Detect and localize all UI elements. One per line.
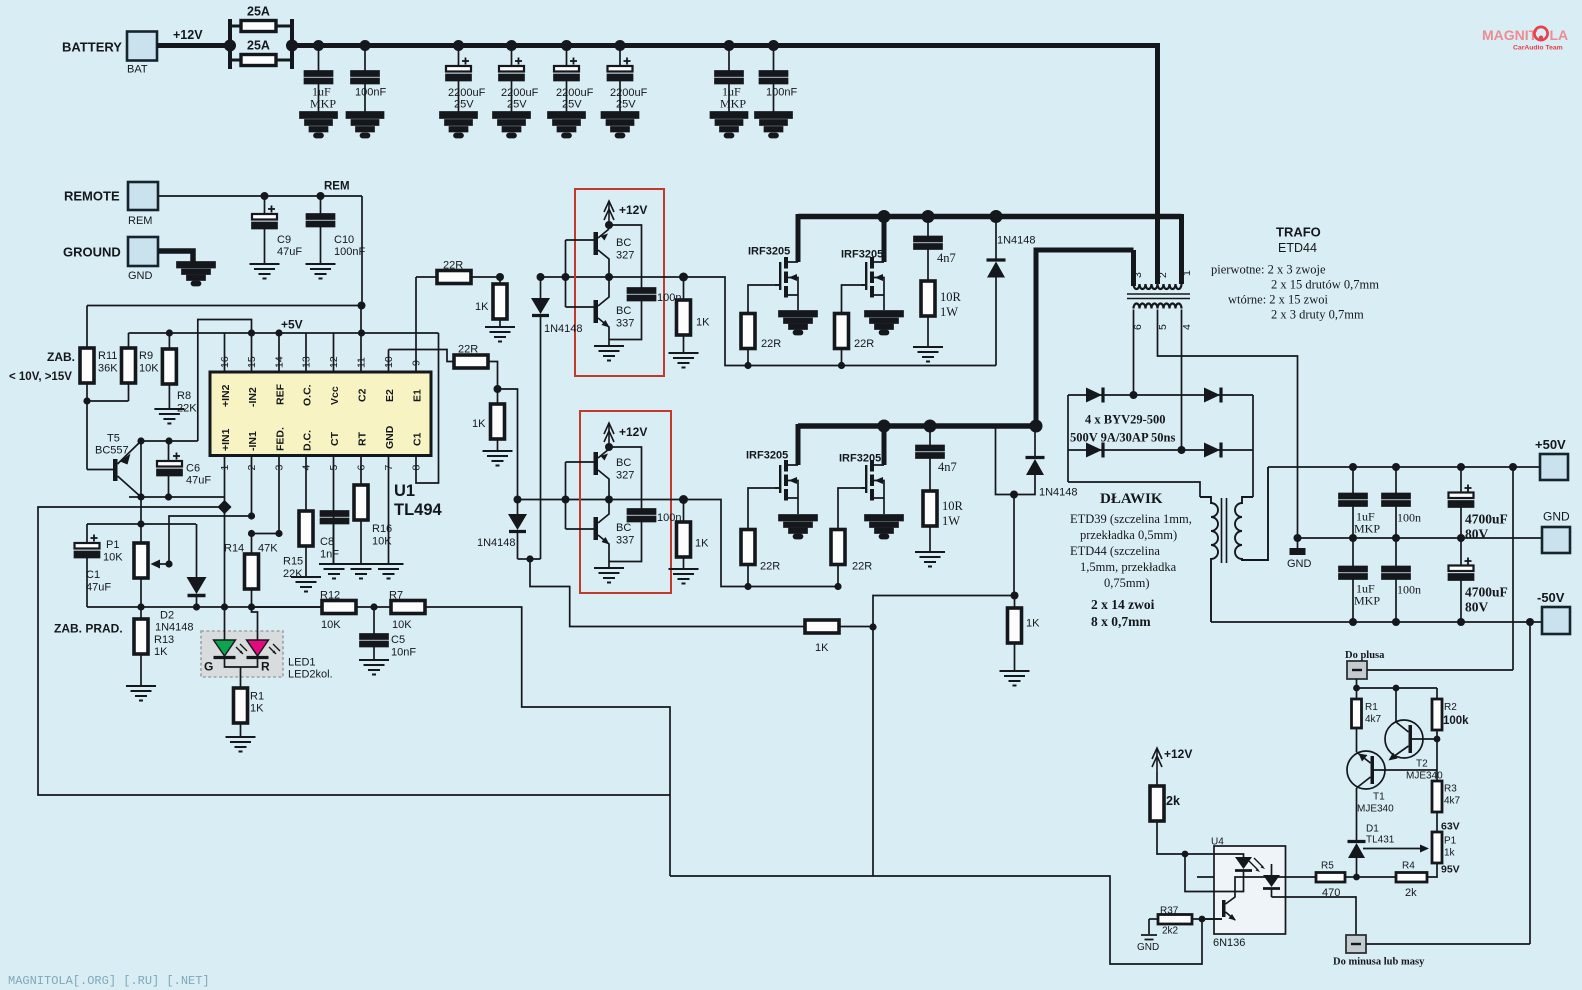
wire driver1 output [609,276,684,278]
wire source M3 to ground [797,498,799,514]
svg-text:63V: 63V [1441,821,1460,833]
transistor BC327 (driver2 top) [594,449,610,500]
svg-text:GND: GND [128,270,153,282]
ground under R16/RT [346,564,376,579]
transistor IRF3205 M3 [775,460,798,501]
transistor IRF3205 M1 [775,257,798,298]
wire source M4 to ground [883,498,885,514]
svg-text:Do minusa lub masy: Do minusa lub masy [1333,957,1425,968]
svg-text:1,5mm, przekładka: 1,5mm, przekładka [1080,560,1177,574]
svg-text:2k: 2k [1166,794,1180,808]
svg-text:2 x 15 drutów 0,7mm: 2 x 15 drutów 0,7mm [1271,278,1379,292]
svg-text:47uF: 47uF [186,475,211,487]
svg-text:+12V: +12V [619,425,647,439]
svg-text:MJE340: MJE340 [1406,771,1443,782]
wire +50V to regulator feed [1512,467,1514,670]
wire step pin15 to T5 node [198,320,252,442]
wire T5 top node (y441) [141,440,198,442]
svg-text:G: G [204,660,213,674]
ground [602,112,639,138]
svg-text:6: 6 [356,465,368,471]
wire CT pin5 through C8 [333,524,335,564]
wire U4 output to Do minusa [1272,897,1357,935]
+12V arrow (opto feed) [1152,748,1162,772]
resistor R4 2k [1357,876,1397,878]
svg-text:2 x 14 zwoi: 2 x 14 zwoi [1091,597,1155,612]
svg-text:10R: 10R [940,290,962,304]
capacitor 100n (+50V) [1395,467,1397,494]
svg-text:22R: 22R [761,338,781,350]
svg-text:95V: 95V [1441,864,1460,876]
diode D2 1N4148 [196,524,198,577]
wire bottom node line (y607) [87,606,322,608]
ground (chassis) [177,262,215,286]
wire R14 top to pin3 [252,533,280,535]
svg-text:MKP: MKP [310,97,336,111]
svg-text:2200uF: 2200uF [501,87,539,99]
svg-text:11: 11 [356,357,368,368]
svg-text:IRF3205: IRF3205 [748,246,790,258]
svg-text:47uF: 47uF [86,582,111,594]
diode 1N4148 (bank2 clamp) [1034,426,1036,456]
LED green G [214,640,236,656]
capacitor 1uF MKP (at trafo) [728,46,730,72]
output pad +50V [1540,454,1568,480]
diode 1N4148 (driver1 input) [540,277,542,298]
wire drain M3 (thick) [796,424,801,465]
svg-text:E1: E1 [412,389,424,402]
resistor R5 470 [1286,876,1317,878]
capacitor 2200uF 25V #1 [458,46,460,67]
resistor R37 2k2 [1149,918,1158,920]
svg-text:1N4148: 1N4148 [1039,487,1078,499]
rectifier bridge frame 4 x BYV29-500 [1068,395,1253,497]
svg-text:22R: 22R [760,561,780,573]
svg-text:1k: 1k [1444,848,1456,859]
ground [669,353,699,368]
ground [1000,671,1030,686]
svg-text:Do plusa: Do plusa [1345,650,1385,661]
svg-text:pierwotne: 2 x 3 zwoje: pierwotne: 2 x 3 zwoje [1211,263,1326,277]
svg-text:100nF: 100nF [766,87,797,99]
resistor R3 4k7 [1432,781,1442,812]
svg-text:BC: BC [616,522,631,534]
+12V arrow (driver1) [604,201,614,225]
svg-text:10nF: 10nF [391,647,416,659]
svg-text:CT: CT [329,431,341,446]
resistor 1K (driver1 input pulldown) [499,277,501,284]
svg-text:22K: 22K [177,403,197,415]
wire junction pin2 x251 [248,512,283,537]
svg-text:TRAFO: TRAFO [1276,225,1321,240]
svg-text:25V: 25V [562,99,582,111]
ground (driver1) [608,340,610,346]
svg-text:4: 4 [1181,324,1193,330]
wire feedback node [839,596,1015,877]
capacitor 100nF (input) [364,46,366,72]
wire divider top [1357,679,1438,688]
capacitor 4n7 (bank1 snubber) [927,217,929,237]
capacitor 2200uF 25V #4 [619,46,621,67]
svg-text:R13: R13 [154,634,174,646]
resistor 10R 1W (bank2 snubber) [923,491,937,526]
choke core [1222,498,1227,563]
transformer secondary winding [1134,304,1182,309]
ground (M4 source) [865,515,903,539]
svg-text:D1: D1 [1366,824,1379,835]
node emitters output (driver2) [605,443,613,504]
svg-text:D.C.: D.C. [302,430,314,451]
svg-text:R5: R5 [1321,861,1334,872]
wire R11/R9 bottoms joined [87,401,129,470]
node diamond pin1 sense [217,500,231,514]
svg-text:10K: 10K [139,363,159,375]
wiper arrow P1 [156,563,169,565]
transistor T1 MJE340 [1347,751,1437,789]
svg-text:R15: R15 [283,556,303,568]
wire to green LED [224,607,226,640]
output pad -50V [1542,607,1570,634]
svg-text:R: R [261,660,270,674]
svg-text:10R: 10R [942,499,964,513]
svg-text:25V: 25V [507,99,527,111]
ground [548,112,585,138]
svg-text:13: 13 [301,356,313,368]
capacitor C8 1nF [321,511,349,524]
potentiometer P1 10K [140,524,142,543]
svg-text:6: 6 [1132,324,1144,330]
svg-text:47K: 47K [258,543,278,555]
svg-text:LA: LA [1550,27,1569,43]
svg-text:C9: C9 [277,234,291,246]
svg-text:22R: 22R [458,344,478,356]
ground [755,112,792,138]
capacitor 100n (-50V) [1395,538,1397,567]
svg-text:1: 1 [1181,270,1193,276]
svg-text:MAGNITOLA[.ORG] [.RU] [.NET]: MAGNITOLA[.ORG] [.RU] [.NET] [8,974,210,988]
resistor R7 10K [391,601,425,614]
resistor 22R (E2 to driver2) [454,355,488,368]
svg-text:25V: 25V [616,99,636,111]
capacitor C6 47uF [168,441,170,461]
resistor R14 47K [251,534,253,555]
svg-text:TL494: TL494 [394,501,443,519]
svg-text:T1: T1 [1373,792,1385,803]
svg-text:GROUND: GROUND [63,245,121,260]
svg-text:P1: P1 [106,539,119,551]
wire source M1 to ground [797,295,799,310]
svg-text:100n: 100n [657,292,681,304]
svg-text:10K: 10K [392,619,412,631]
LED inside U4 [1214,854,1244,857]
capacitor 100n (driver1 decouple) [609,225,642,340]
resistor R15 22K [305,510,307,512]
fuse F2 25A [241,55,276,66]
svg-text:4n7: 4n7 [938,460,957,474]
resistor R2 100k [1436,688,1438,699]
svg-text:O.C.: O.C. [302,384,314,406]
diode BYV29 D-d [1204,443,1220,458]
svg-text:BC: BC [616,237,631,249]
svg-text:R14: R14 [224,543,244,555]
LED red R [247,640,269,656]
+12V arrow (driver2) [604,423,614,447]
svg-text:R4: R4 [1402,861,1415,872]
ground [250,264,280,279]
wire Do plusa to +50V feed [1367,669,1513,671]
svg-text:4: 4 [301,465,313,471]
ground GND tab [1297,538,1299,548]
wire bank1 rail to primary pin1 (thick) [1179,214,1184,284]
resistor 1K (driver2 input pulldown) [497,389,499,404]
transformer T1 ETD44 primary winding [1134,284,1182,289]
diode BYV29 D-c [1086,443,1102,458]
wire secondary pin6 to rectifier [1133,310,1135,396]
wire LED cathode branch [1185,854,1214,892]
svg-text:D2: D2 [160,610,174,622]
svg-text:C6: C6 [186,463,200,475]
svg-text:100n: 100n [1397,583,1421,597]
svg-text:5: 5 [1157,324,1169,330]
resistor R8 22K [168,333,170,349]
terminal box Do minusa [1346,935,1366,953]
wire P1 top line (y524) [87,523,196,525]
svg-text:LED2kol.: LED2kol. [288,669,333,681]
ground (driver2) [608,562,610,568]
ground pad GND [128,237,158,266]
svg-text:MKP: MKP [1354,594,1380,608]
ground (M3 source) [779,515,817,539]
resistor R13 1K [140,607,142,619]
svg-text:1K: 1K [696,317,710,329]
ground stub (R37) [1148,919,1150,934]
svg-text:+5V: +5V [281,318,303,332]
choke right winding [1235,467,1268,560]
node dot driver1 input [496,273,570,281]
svg-text:3: 3 [1132,272,1144,278]
svg-text:R7: R7 [389,590,403,602]
svg-text:-IN1: -IN1 [247,431,259,451]
ground [669,569,699,584]
svg-text:10K: 10K [321,619,341,631]
svg-text:wtórne: 2 x 15 zwoi: wtórne: 2 x 15 zwoi [1228,293,1329,307]
svg-text:BATTERY: BATTERY [62,40,122,55]
photodiode inside U4 [1271,864,1273,875]
svg-text:4700uF: 4700uF [1465,585,1508,600]
transistor BC327 (driver1 top) [594,229,610,277]
transistor BC337 (driver2 bottom) [594,500,610,562]
wire bank2 riser to transformer (thick) [1034,250,1134,426]
junction dots on main rail [224,40,779,52]
svg-text:R37: R37 [1160,906,1179,917]
svg-text:R11: R11 [98,350,117,362]
svg-text:+IN2: +IN2 [220,384,232,407]
wire REM line [158,196,362,306]
svg-text:500V 9A/30AP 50ns: 500V 9A/30AP 50ns [1070,431,1175,445]
svg-text:2: 2 [1157,272,1169,278]
svg-text:-IN2: -IN2 [247,387,259,407]
svg-text:C1: C1 [86,569,100,581]
svg-text:R12: R12 [320,590,340,602]
svg-text:REM: REM [324,181,350,193]
ground [440,112,477,138]
svg-text:GND: GND [1137,942,1159,953]
svg-text:FED.: FED. [275,427,287,451]
svg-text:C2: C2 [357,388,369,402]
svg-text:1: 1 [219,465,231,471]
wire ZAB.PRAD sense (y507 to bottom loop) [38,507,670,795]
svg-text:Vcc: Vcc [329,386,341,405]
svg-text:R8: R8 [177,390,191,402]
node dots on REF line [166,329,365,336]
node driver2 output / bank2 gate line [683,500,685,523]
ground under GND pin7 [374,564,404,579]
wire bank1 gate line [684,277,997,366]
red frame driver 1 [575,189,664,376]
wire driver2 output [609,499,684,501]
wire diode cathodes to 1K feedback [530,559,805,627]
wire to red LED [252,607,258,640]
svg-text:3: 3 [274,465,286,471]
svg-text:2 x 3 druty 0,7mm: 2 x 3 druty 0,7mm [1271,308,1364,322]
ground [485,327,515,342]
svg-text:C1: C1 [412,432,424,446]
svg-text:25A: 25A [247,39,270,53]
svg-text:ETD44 (szczelina: ETD44 (szczelina [1070,544,1160,558]
capacitor 2200uF 25V #2 [511,46,513,67]
svg-text:4n7: 4n7 [937,251,956,265]
capacitor 4n7 (bank2 snubber) [929,426,931,446]
svg-text:MKP: MKP [1354,522,1380,536]
wire source M2 to ground [883,295,885,310]
svg-text:2200uF: 2200uF [448,87,486,99]
svg-text:< 10V, >15V: < 10V, >15V [9,371,72,383]
svg-text:22R: 22R [443,260,463,272]
svg-text:MKP: MKP [720,97,746,111]
svg-text:BC557: BC557 [95,445,129,457]
pin stubs bottom 1..8 [225,333,439,607]
ground [300,112,337,138]
wire GND rail [1298,537,1543,539]
svg-text:4k7: 4k7 [1444,796,1461,807]
resistor 1K (gate pulldown bank2) [677,522,691,557]
optocoupler U4 6N136 [1214,846,1286,934]
choke DLAWIK left winding [1200,497,1218,622]
svg-text:4700uF: 4700uF [1465,512,1508,527]
svg-text:C10: C10 [334,234,354,246]
ground under R8 [154,409,184,424]
svg-text:25V: 25V [454,99,474,111]
svg-text:1N4148: 1N4148 [997,235,1036,247]
wire LED cathodes join [225,658,258,689]
svg-text:IRF3205: IRF3205 [746,450,788,462]
svg-text:1nF: 1nF [320,549,339,561]
capacitor C1 47uF [86,524,88,543]
diode BYV29 D-a [1086,388,1102,403]
svg-text:7: 7 [383,465,395,471]
ground [493,112,530,138]
resistor 22R (gate M4) [837,565,839,587]
wire wiper to pin2 column [169,516,252,564]
wire drain M2 (thick) [882,214,887,262]
wire driver1 input to bases [541,276,610,278]
svg-text:BAT: BAT [127,64,148,76]
svg-text:T2: T2 [1416,759,1428,770]
transistor BC337 (driver1 bottom) [594,277,610,340]
wire vertical x141 (T5 bypass to P1) [140,441,142,524]
resistor 22R (gate M3) [747,565,749,587]
svg-text:1K: 1K [154,646,168,658]
resistor 1K (feedback series) [805,620,839,633]
svg-text:GND: GND [384,425,396,449]
svg-text:80V: 80V [1465,600,1489,615]
capacitor C9 47uF [264,196,266,214]
svg-text:GND: GND [1287,558,1312,570]
svg-text:+IN1: +IN1 [220,428,232,451]
wire bank2 gate line [684,500,839,587]
resistor 22R (E1 to driver1) [416,276,437,278]
svg-text:327: 327 [616,250,634,262]
resistor 2k [1156,772,1158,786]
wire +5V REF line (y333) [129,332,439,334]
resistor 22R (gate M1) [747,349,749,366]
svg-text:0,75mm): 0,75mm) [1104,576,1149,590]
svg-text:U1: U1 [394,482,415,500]
svg-text:REM: REM [128,215,152,227]
wire pin10 E2 to 22R#2 [389,350,455,362]
svg-text:1K: 1K [250,703,264,715]
LED light arrows [236,644,280,654]
svg-text:1W: 1W [942,514,960,528]
svg-text:80V: 80V [1465,527,1489,542]
svg-text:R3: R3 [1444,784,1457,795]
svg-text:8 x 0,7mm: 8 x 0,7mm [1091,614,1151,629]
svg-text:C5: C5 [391,634,405,646]
svg-text:-50V: -50V [1537,590,1565,605]
wire -50V to regulator return [1529,622,1531,944]
wire bases tie (driver1) [566,240,594,307]
svg-text:U4: U4 [1211,837,1224,848]
svg-text:327: 327 [616,470,634,482]
diode 1N4148 (bank1 clamp) [995,217,997,259]
wire +12V sense line (y305) [87,305,362,307]
capacitor 4700uF 80V (-50V) [1460,538,1462,566]
svg-text:1K: 1K [695,538,709,550]
svg-text:LED1: LED1 [288,657,316,669]
resistor R16 10K [360,484,362,486]
svg-text:IRF3205: IRF3205 [841,249,883,261]
svg-text:22R: 22R [854,338,874,350]
node driver1 output [679,273,688,505]
svg-text:E2: E2 [384,389,396,402]
svg-text:2k: 2k [1405,887,1417,899]
svg-text:+12V: +12V [173,28,203,42]
svg-text:ETD39 (szczelina 1mm,: ETD39 (szczelina 1mm, [1070,512,1192,526]
resistor R1 1K [234,688,248,723]
svg-text:337: 337 [616,535,634,547]
ground [915,552,945,567]
capacitor 1uF MKP (input) [318,46,320,72]
U4 NC stub [1197,876,1214,878]
svg-text:1K: 1K [475,301,489,313]
red frame driver 2 [580,411,671,593]
svg-text:337: 337 [616,318,634,330]
svg-text:R1: R1 [250,691,264,703]
svg-text:2k2: 2k2 [1162,926,1179,937]
svg-text:6N136: 6N136 [1213,937,1245,949]
svg-text:100nF: 100nF [355,87,386,99]
wire -50V rail [1211,621,1542,623]
